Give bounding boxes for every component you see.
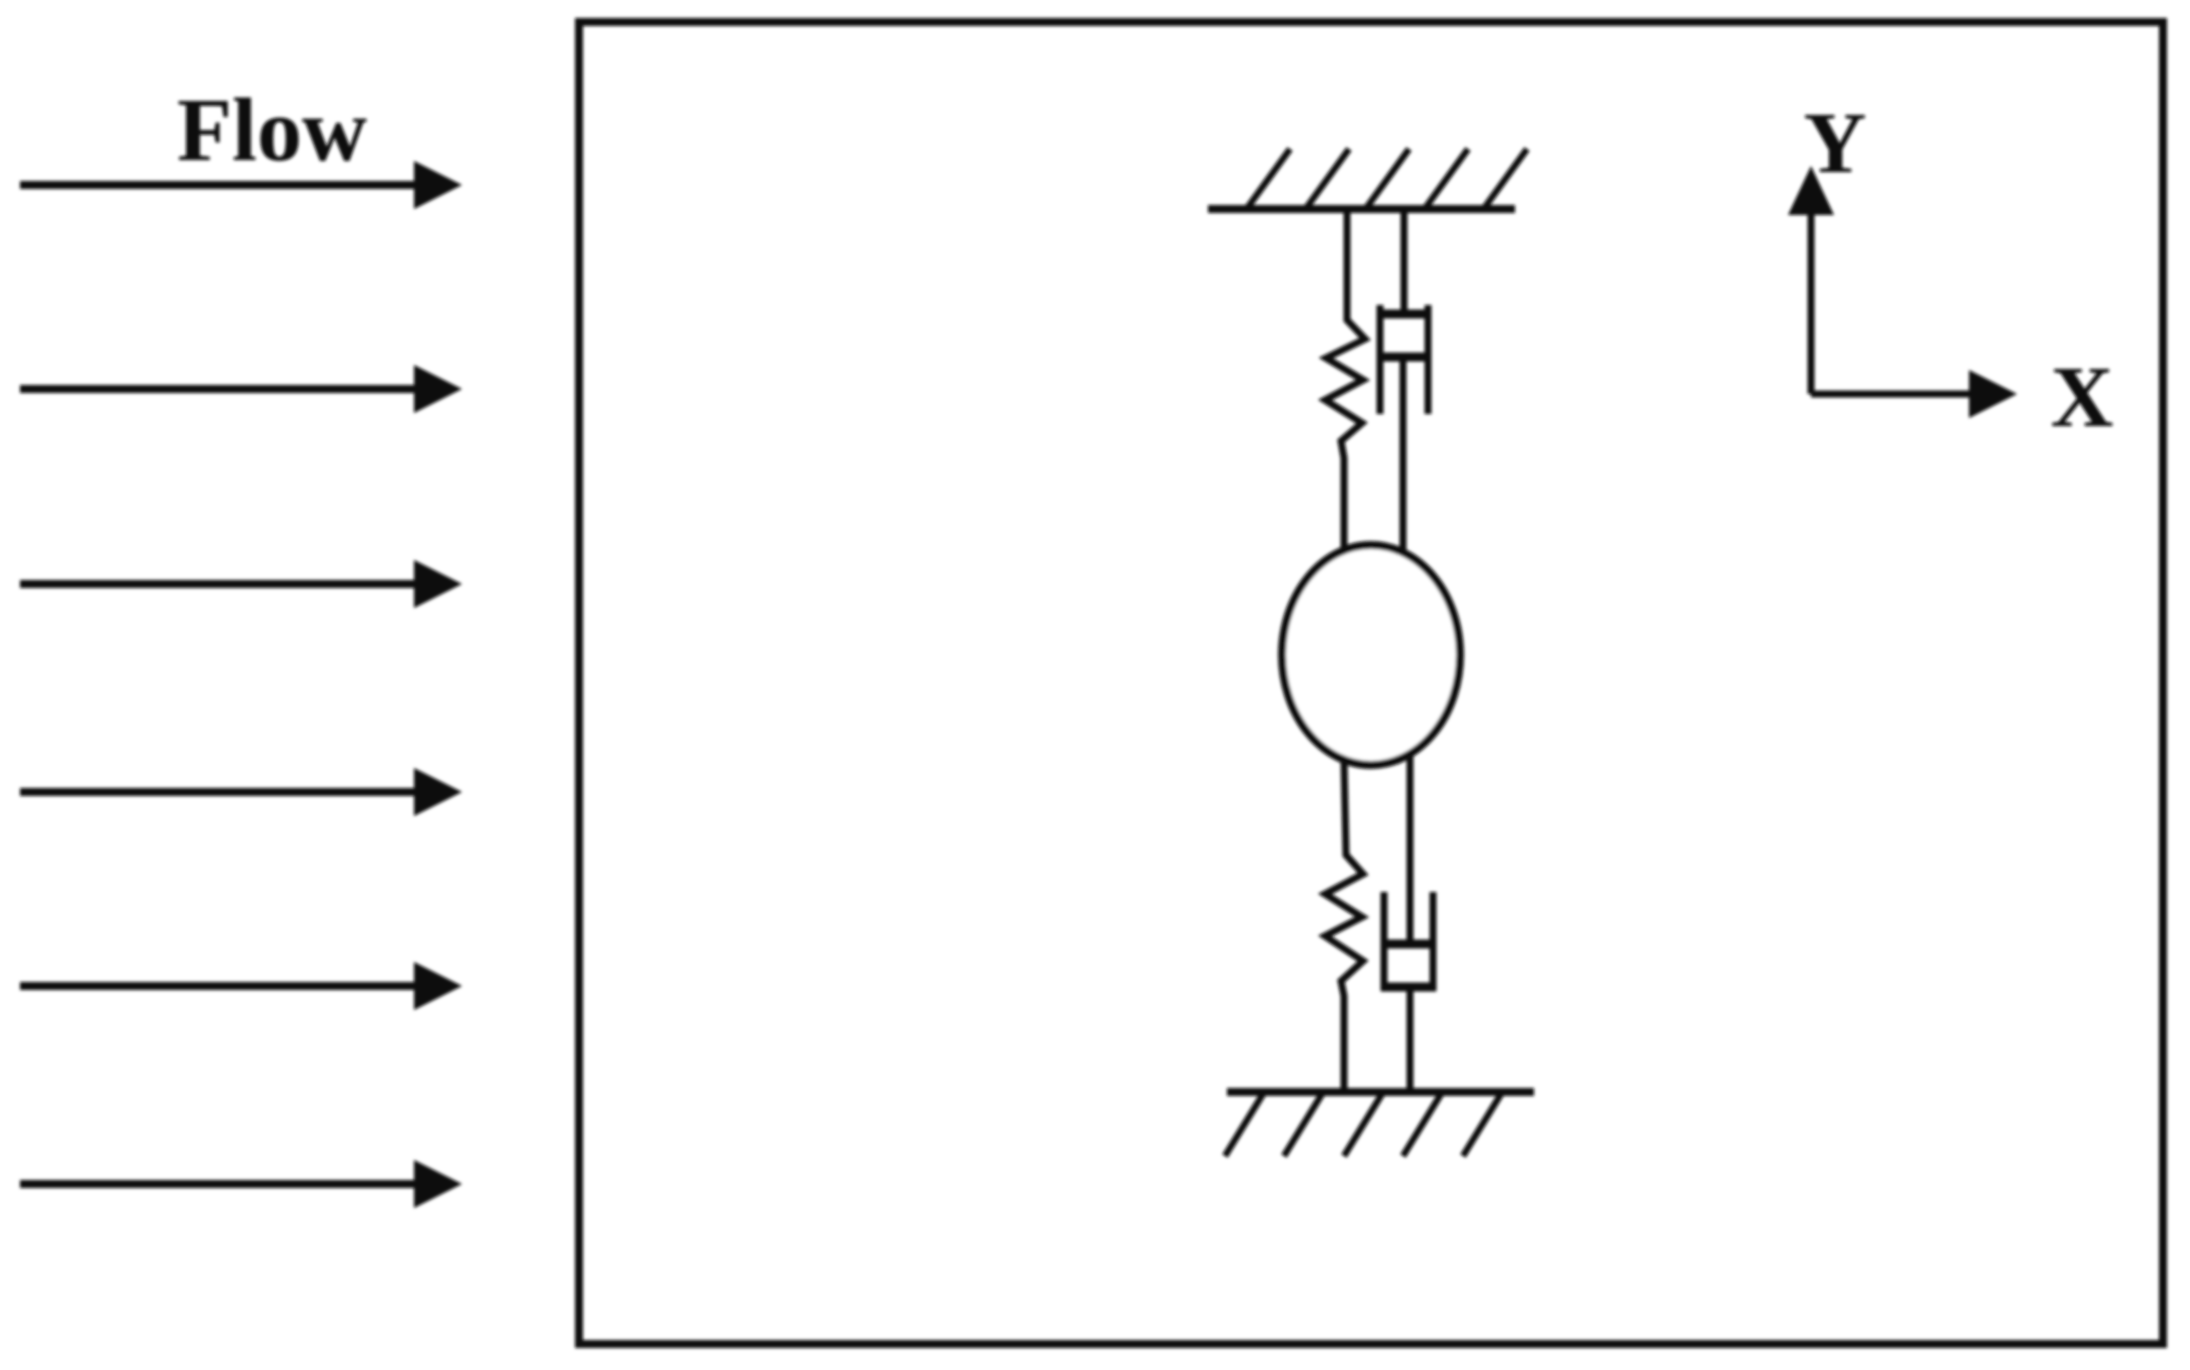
flow arrow 1 bbox=[20, 161, 462, 209]
top damper bbox=[1377, 210, 1431, 552]
bottom fixed wall bbox=[1225, 1092, 1534, 1156]
flow arrow 5 bbox=[20, 962, 462, 1010]
flow arrow 3 bbox=[20, 560, 462, 608]
svg-text:Y: Y bbox=[1804, 94, 1867, 191]
axis Y bbox=[1788, 94, 1866, 394]
domain box bbox=[579, 22, 2163, 1344]
top spring bbox=[1325, 210, 1365, 550]
cylinder mass bbox=[1282, 545, 1460, 765]
flow arrow 6 bbox=[20, 1160, 462, 1208]
flow arrow 2 bbox=[20, 365, 462, 413]
bottom damper bbox=[1381, 755, 1436, 1089]
top fixed wall bbox=[1208, 149, 1527, 209]
svg-text:X: X bbox=[2051, 348, 2114, 445]
flow arrow 4 bbox=[20, 768, 462, 816]
bottom spring bbox=[1325, 760, 1363, 1089]
axis X bbox=[1811, 348, 2113, 445]
svg-text:Flow: Flow bbox=[177, 81, 367, 180]
